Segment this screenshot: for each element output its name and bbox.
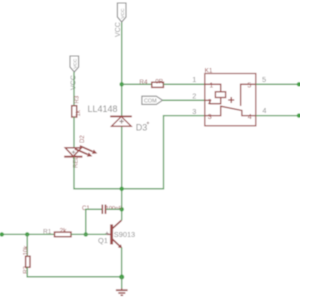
wire VCC left stem to R3 [73, 72, 75, 106]
svg-text:3: 3 [192, 107, 196, 116]
svg-text:0R: 0R [155, 79, 163, 86]
label R2 [24, 265, 30, 273]
junction node at C1 drop [84, 232, 88, 236]
junction node at C1 right [120, 207, 124, 211]
pin number 1 (inside) [209, 82, 213, 89]
value LL4148 (D3) [88, 104, 118, 114]
value 0R (R4) [155, 79, 163, 86]
svg-text:R1: R1 [43, 228, 52, 235]
pin number 4 (outside) [262, 106, 266, 115]
wire main vertical (D3 anode down to Q1 collector) [121, 126, 123, 220]
svg-text:Q1: Q1 [98, 236, 108, 245]
value 1k (R3) [76, 109, 82, 116]
pin number 3 (inside) [208, 114, 212, 121]
label R1 [43, 228, 52, 235]
pin number 1 (outside) [192, 75, 196, 84]
wire relay pin 5 to right edge [256, 83, 300, 85]
label D3 [136, 123, 148, 133]
LED D2 [64, 146, 97, 157]
wire VCC junction to R4 [122, 83, 152, 85]
transistor Q1 [107, 220, 122, 248]
svg-text:1: 1 [209, 82, 213, 89]
pin number 2 (inside) [208, 99, 212, 106]
junction node at emitter / ground [119, 275, 124, 280]
junction node at collector / pin3 net [120, 187, 124, 191]
wire relay pin 3 to collector node [122, 116, 205, 189]
svg-text:4: 4 [248, 114, 252, 121]
wire R2 top [26, 234, 28, 256]
wire VCC stem (top, from flag down to diode D3) [121, 22, 123, 116]
pin number 3 (outside) [192, 107, 196, 116]
resistor R1 [55, 232, 72, 237]
small cross right of D3 label [147, 122, 150, 125]
diode D3 [110, 116, 132, 126]
relay K1 [205, 74, 256, 126]
label R3 [75, 95, 81, 103]
svg-text:2: 2 [208, 99, 212, 106]
svg-text:2: 2 [192, 91, 196, 100]
svg-text:VCC: VCC [115, 22, 122, 37]
wire R2 bottom to ground rail [27, 267, 121, 277]
pin number 2 (outside) [192, 91, 196, 100]
label D2 [80, 135, 86, 143]
svg-text:S9013: S9013 [114, 230, 135, 239]
wire R3 to LED D2 [73, 117, 75, 148]
resistor R2 [26, 256, 30, 267]
power flag VCC (left) [70, 56, 79, 72]
junction node at VCC / R4 branch [120, 82, 124, 86]
label K1 [205, 68, 213, 75]
svg-text:10k: 10k [24, 245, 30, 256]
wire relay pin 4 to right edge [256, 115, 300, 117]
junction node at R2 top [25, 232, 29, 236]
svg-text:D3: D3 [136, 123, 148, 133]
svg-text:3: 3 [208, 114, 212, 121]
svg-text:LL4148: LL4148 [88, 104, 118, 114]
pin number 5 (inside) [247, 82, 251, 89]
resistor R3 [72, 106, 77, 117]
label Q1 [98, 236, 108, 245]
wire down to ground symbol [121, 277, 123, 289]
svg-text:COM: COM [144, 98, 157, 104]
pin number 4 (inside) [248, 114, 252, 121]
svg-text:VCC: VCC [73, 58, 79, 69]
value 100nF (C1) [106, 206, 123, 212]
svg-text:D2: D2 [80, 135, 86, 143]
value S9013 (Q1) [114, 230, 135, 239]
wire R4 to relay pin 1 [163, 83, 204, 85]
capacitor C1 [102, 205, 105, 214]
svg-text:K1: K1 [205, 68, 213, 75]
net label VCC (top) [115, 22, 122, 37]
power flag VCC (top) [117, 3, 126, 22]
wire Q1 emitter to bottom rail [121, 248, 123, 277]
pin number 5 (outside) [262, 75, 266, 84]
origin cross Q1 [105, 232, 108, 235]
label C1 [82, 206, 90, 212]
wire C1 right plate to main vertical [106, 208, 122, 210]
svg-text:R4: R4 [139, 79, 148, 86]
value 2k (R1) [60, 227, 68, 234]
svg-text:4: 4 [262, 106, 266, 115]
ground symbol [116, 288, 128, 295]
junction node at right edge (pin 4 net) [297, 113, 301, 117]
svg-text:2k: 2k [60, 227, 68, 234]
svg-text:1: 1 [192, 75, 196, 84]
junction node at left edge [0, 232, 4, 236]
origin cross D3 [119, 119, 123, 123]
svg-text:R3: R3 [75, 95, 81, 103]
wire D2 to collector node [74, 157, 122, 189]
svg-text:VCC: VCC [120, 8, 126, 19]
value RED (D2) [74, 155, 80, 168]
svg-text:5: 5 [262, 75, 266, 84]
junction node at right edge (pin 5 net) [297, 82, 301, 86]
net flag COM [142, 96, 163, 104]
wire R1 to Q1 base [71, 233, 107, 235]
label R4 [139, 79, 148, 86]
svg-text:1k: 1k [76, 109, 82, 116]
wire C1 left plate and drop to base rail [86, 209, 102, 234]
resistor R4 [152, 82, 164, 87]
net label VCC (left) [71, 75, 78, 90]
origin cross D2 [72, 151, 75, 154]
wire COM to relay pin 2 [163, 99, 205, 101]
svg-text:5: 5 [247, 82, 251, 89]
wire base rail from left edge [0, 233, 55, 235]
value 10k (R2) [24, 245, 30, 256]
